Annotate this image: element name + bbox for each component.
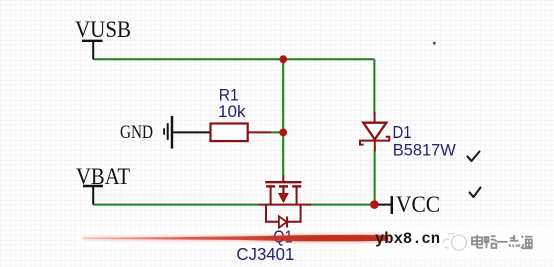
watermark Chinese caption 电路一点通 (drawn strokes) [472, 235, 533, 249]
wire vertical from top junction to Q1 gate [282, 59, 284, 176]
power port VBAT [76, 164, 130, 205]
svg-text:VCC: VCC [396, 192, 440, 218]
svg-text:VUSB: VUSB [75, 17, 131, 43]
resistor R1 [211, 124, 272, 142]
diode D1 [360, 112, 389, 152]
watermark red streak [83, 235, 388, 241]
svg-text:GND: GND [120, 123, 153, 143]
glyph 通 [521, 236, 533, 249]
svg-text:CJ3401: CJ3401 [236, 244, 294, 264]
glyph 一 [497, 241, 508, 243]
glyph 路 [485, 236, 497, 248]
transistor Q1 [259, 175, 312, 228]
checkmark near VCC [470, 188, 481, 198]
node junction VCC [370, 200, 379, 209]
wire vertical to D1 anode [373, 59, 375, 114]
watermark red streak halo [83, 234, 390, 242]
checkmark near D1 [468, 152, 480, 162]
wire D1 cathode to VCC junction [374, 151, 376, 206]
svg-text:D1: D1 [393, 122, 412, 142]
power port GND [120, 116, 211, 149]
svg-text:10k: 10k [218, 102, 246, 121]
watermark logo circles [443, 233, 467, 250]
svg-text:B5817W: B5817W [393, 140, 456, 159]
glyph 电 [472, 235, 483, 248]
glyph 点 [509, 235, 519, 247]
svg-text:ybx8.cn: ybx8.cn [375, 230, 440, 248]
node junction R1-gate [279, 129, 287, 137]
stray ink dot [433, 42, 436, 45]
wire VUSB horizontal top [93, 58, 374, 60]
power port VCC [375, 192, 440, 218]
node junction top [279, 55, 287, 63]
wire VBAT to Q1 source [93, 204, 259, 206]
wire R1 to gate net [271, 131, 283, 133]
wire Q1 drain to VCC junction [310, 204, 375, 206]
watermark white wash band [78, 229, 378, 247]
power port VUSB [75, 17, 131, 59]
